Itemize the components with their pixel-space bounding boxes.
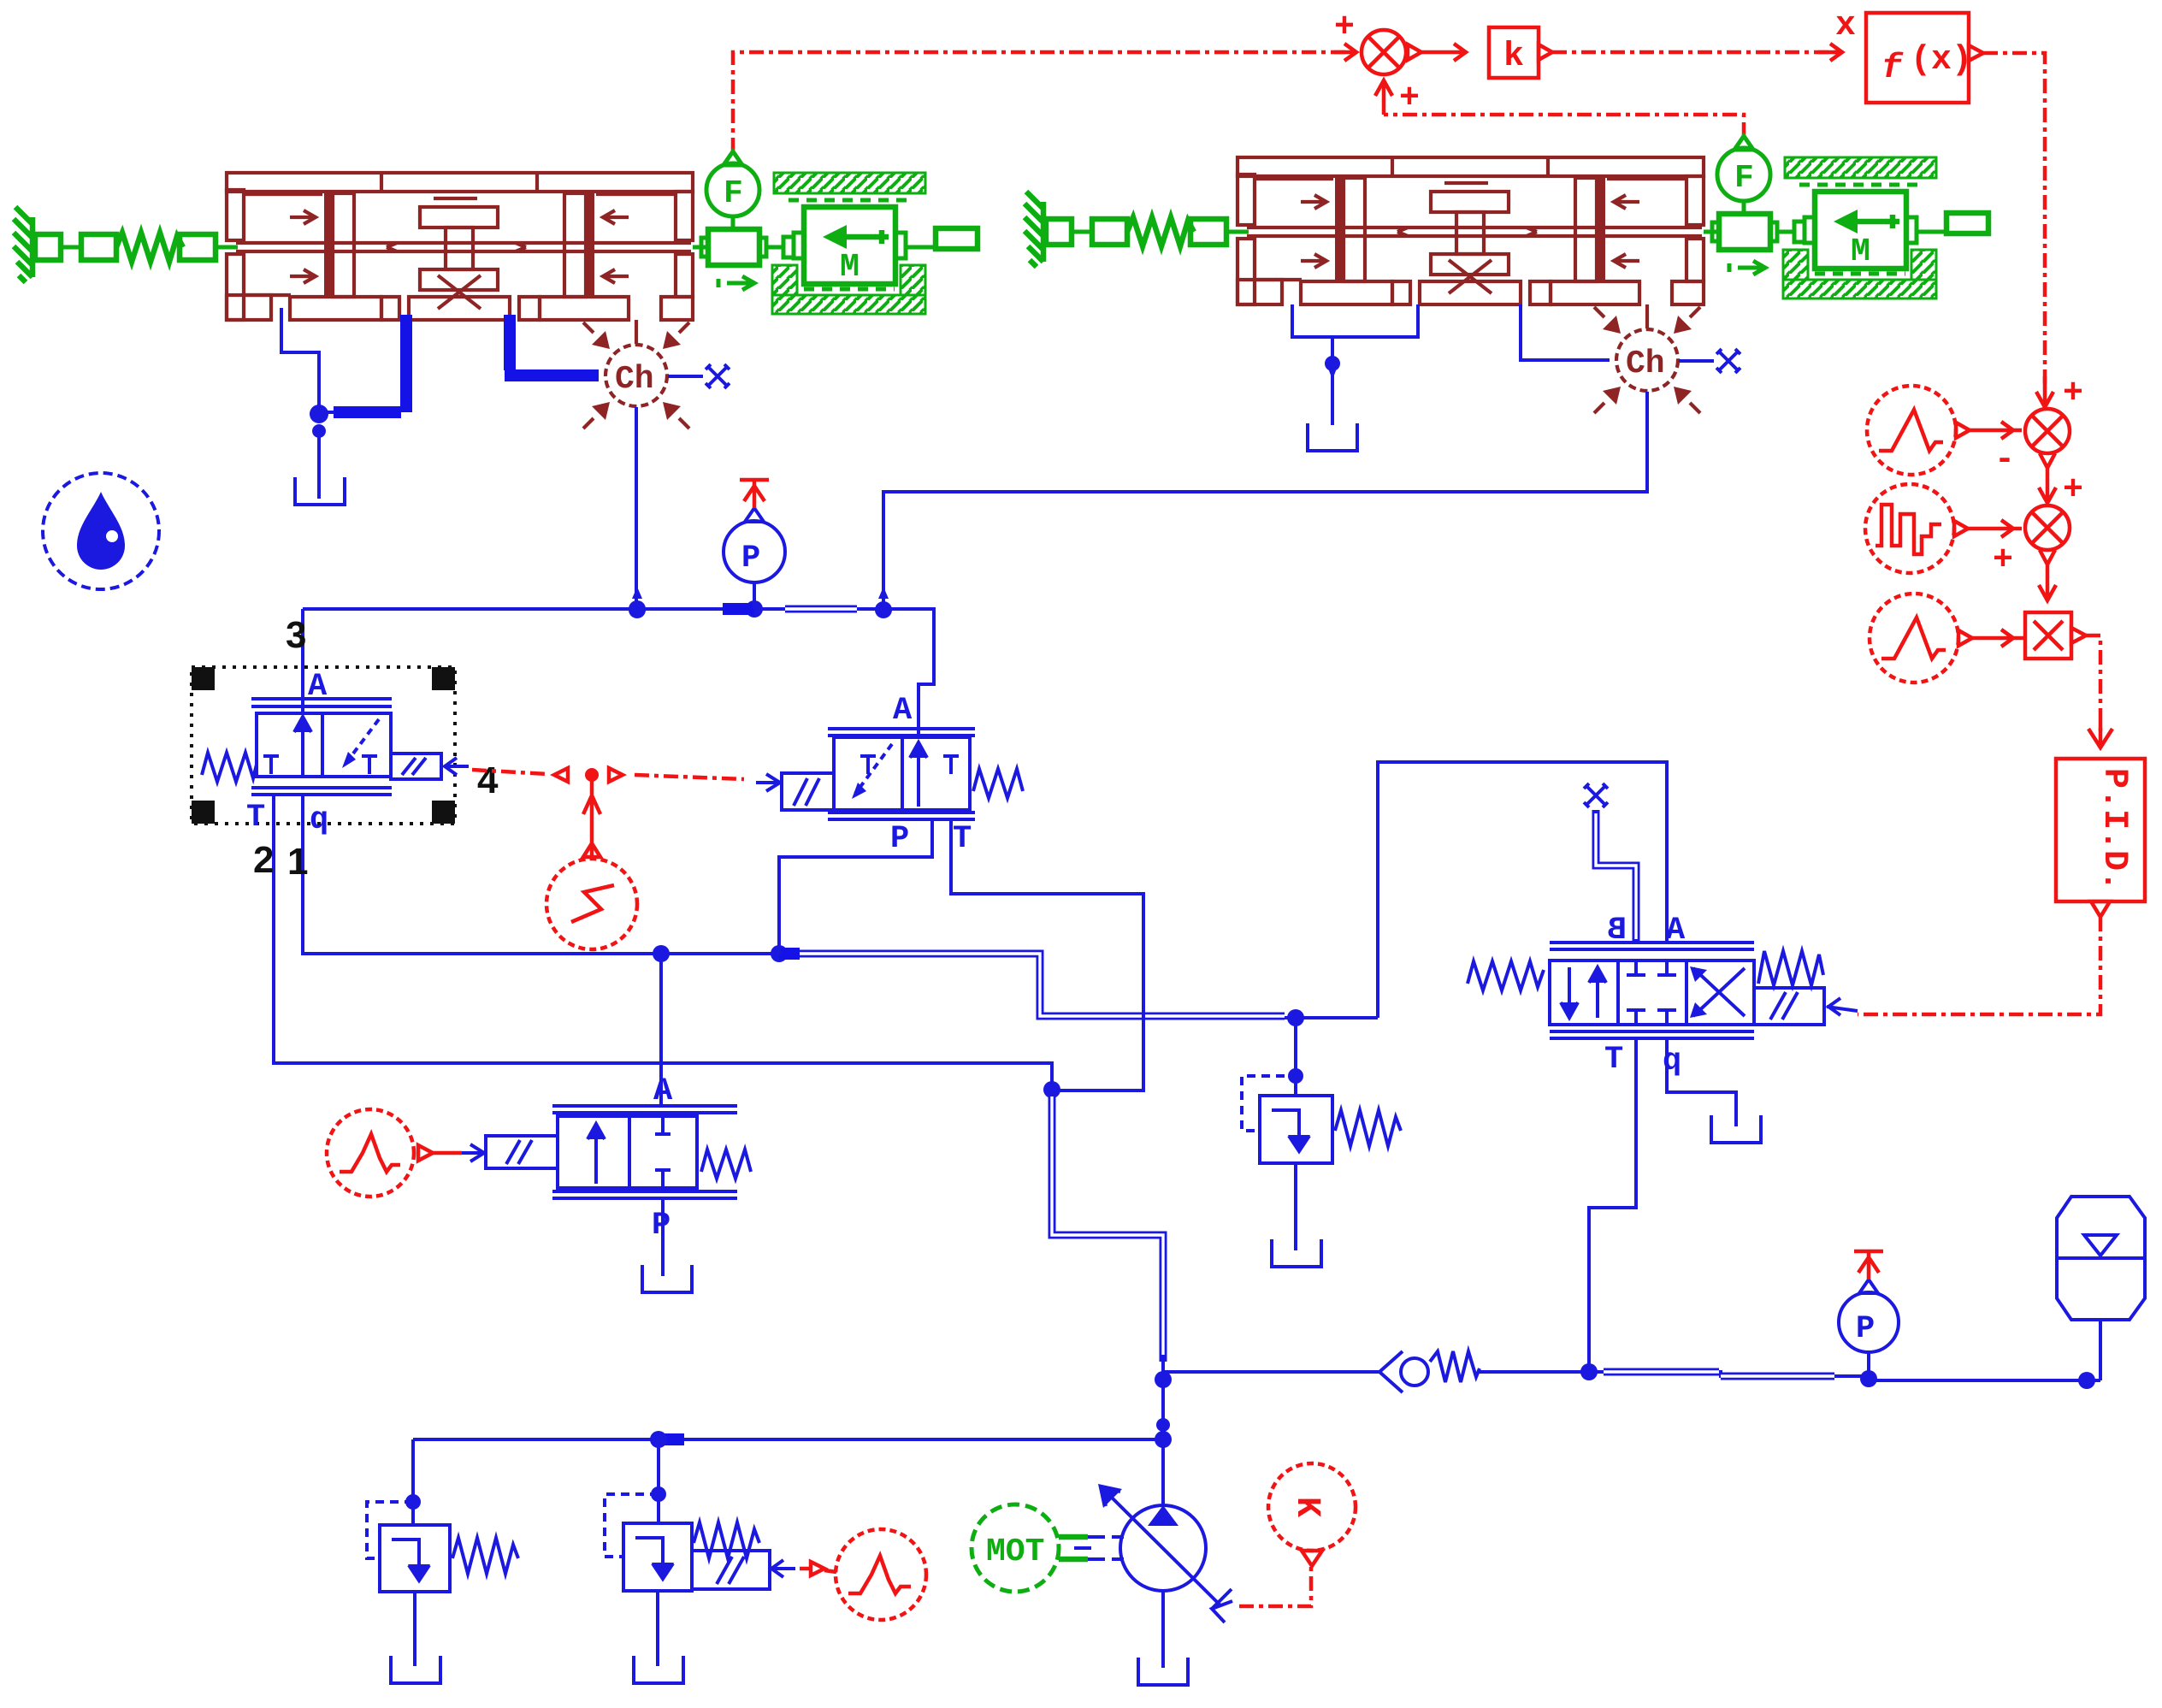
chamber Ch stem — [635, 320, 638, 344]
wire: S1 to k — [1421, 44, 1466, 61]
svg-text:MOT: MOT — [986, 1534, 1044, 1570]
wire: SV1 tank drop — [317, 432, 321, 499]
servo cylinder assembly SV1 (maroon) with load — [14, 151, 978, 428]
red bleed arrow above P2 — [1854, 1251, 1883, 1280]
node: summer1 bottom input arrow — [1375, 80, 1392, 115]
wire: accumulator stem — [2099, 1320, 2102, 1380]
wire: SV1 thick drain right to Ch — [505, 315, 599, 375]
PID controller block — [2056, 759, 2145, 901]
tank: PV3 tank — [642, 1265, 692, 1292]
svg-text:P: P — [890, 821, 909, 857]
red junction arrows — [554, 768, 568, 782]
electric motor MOT — [972, 1504, 1088, 1592]
wire: mass to end stop — [906, 245, 936, 250]
signal source SRC1 (ramp) — [1867, 386, 1956, 475]
pressure sensor P1 — [724, 508, 785, 582]
wire: S2 to S3 — [2039, 468, 2056, 503]
signal source SRC2 (steps) — [1865, 484, 1954, 573]
node junction dot — [1287, 1009, 1304, 1026]
node junction dot — [1155, 1371, 1172, 1388]
wire: shaft blue part — [1074, 1537, 1124, 1559]
orifice double segment on bus — [1604, 1372, 1834, 1376]
X marker vent — [706, 364, 730, 388]
wire: RV1 to tank — [413, 1592, 416, 1666]
wire: SV1 drain thin to tank — [281, 308, 319, 409]
tank: SV1 drain tank — [295, 477, 345, 505]
valve housing left wall — [227, 190, 244, 240]
wire: RV2 to tank — [656, 1591, 659, 1666]
wire: red dash-dot M1 to PID — [2086, 635, 2100, 731]
wire: center valve T route to node — [951, 818, 1143, 1090]
wire: SV1 thick drain left — [334, 315, 406, 412]
relief valve RV1 — [367, 1502, 518, 1592]
wire: double line down to pump branch — [1052, 1090, 1163, 1362]
housing inner chamber lines — [245, 194, 674, 295]
svg-text:A: A — [893, 693, 913, 729]
svg-text:P.I.D.: P.I.D. — [2094, 768, 2133, 891]
svg-text:-: - — [1994, 441, 2015, 480]
spring (input) — [116, 233, 183, 262]
wire: center valve A riser — [917, 729, 920, 737]
ceiling ground hatch — [774, 173, 925, 193]
node junction dot — [651, 1486, 666, 1502]
servo cylinder assembly SV2 (maroon) with load — [1025, 136, 1988, 413]
wire: pump riser — [1161, 1362, 1165, 1505]
wire: double line bus to pilot relief node — [800, 954, 1285, 1016]
node junction dot — [1156, 1418, 1170, 1432]
selection frame around selected valve — [192, 667, 455, 824]
tank: 4-way valve P tank — [1711, 1115, 1761, 1143]
svg-text:K: K — [1287, 1497, 1326, 1517]
svg-text:T: T — [1604, 1042, 1623, 1078]
node: k output pointer — [1539, 44, 1552, 60]
wire: bottom-left valve A riser — [659, 954, 663, 1108]
svg-text:k: k — [1503, 38, 1524, 76]
valve housing top bar — [227, 173, 693, 192]
summer S3 — [2025, 505, 2070, 550]
node: S3 output pointer — [2040, 550, 2055, 564]
node junction dot — [405, 1494, 421, 1510]
signal source SRC4 (zigzag) — [546, 859, 637, 949]
wire: B port double line to X vent — [1596, 810, 1636, 943]
node junction dot — [653, 945, 670, 962]
red bleed arrow above P1 — [740, 480, 769, 508]
node junction dot — [1860, 1370, 1877, 1387]
node: S1 output pointer — [1408, 44, 1421, 60]
damper block — [35, 234, 61, 260]
spool center cap — [434, 197, 477, 200]
svg-text:4: 4 — [477, 759, 499, 801]
node: PID output pointer — [2091, 901, 2110, 917]
summer S2 — [2025, 409, 2070, 453]
svg-text:q: q — [1663, 1043, 1681, 1079]
wire: selected valve T line to node — [274, 795, 1052, 1090]
svg-text:F: F — [724, 175, 743, 212]
bottom-left pilot valve PV3 — [462, 1073, 751, 1244]
signal source SRC5 (peak) — [327, 1109, 414, 1197]
svg-text:(x): (x) — [1911, 41, 1972, 80]
node junction dot — [746, 600, 763, 618]
relief valve RV2 with solenoid — [605, 1494, 795, 1591]
node junction dot — [771, 945, 788, 962]
tank: RV3 tank — [1272, 1239, 1321, 1267]
wire: PV3 to tank — [661, 1198, 665, 1276]
wire: relief valve RV2 riser — [657, 1439, 660, 1523]
red dash-dot pilot link from input T-junction — [472, 770, 547, 774]
wire: 4-way valve A port long route — [1378, 762, 1667, 1018]
svg-text:+: + — [2063, 471, 2083, 510]
wire: center valve P route to bus — [779, 818, 932, 954]
spool center I-beam — [420, 207, 498, 228]
wire: P2 sensor stem — [1867, 1353, 1870, 1379]
wire: relief branch line y1683 — [413, 1438, 1163, 1441]
wire: P1 sensor stem — [753, 583, 756, 609]
node junction dot — [310, 405, 328, 423]
chamber sensor Ch — [583, 322, 689, 428]
wire: relief valve RV1 riser — [411, 1439, 415, 1525]
wire: SRC1 to S2 — [1970, 422, 2022, 439]
node junction dot — [1043, 1081, 1060, 1098]
svg-text:3: 3 — [286, 614, 306, 656]
valve housing right wall — [676, 192, 693, 240]
orifice on main pilot line — [785, 606, 857, 613]
multiplier summer S1 — [1362, 30, 1406, 74]
wire: SRC5 to solenoid — [433, 1151, 462, 1155]
wire: bottom main bus — [1163, 1372, 2100, 1380]
node junction dot — [1580, 1363, 1598, 1380]
wire: RV3 to tank — [1294, 1163, 1297, 1250]
wire: red dash-dot F2 feedback line — [1384, 115, 1744, 137]
svg-text:+: + — [1993, 541, 2013, 580]
node junction dot — [1288, 1068, 1303, 1084]
wire: Ch to X vent — [668, 375, 703, 378]
mass M block — [804, 207, 895, 284]
svg-text:+: + — [2063, 375, 2083, 413]
svg-text:+: + — [1334, 9, 1355, 47]
wire: SV2 third port to Ch2 — [1521, 304, 1610, 360]
wire: green rod into valve — [216, 245, 238, 250]
nozzle flapper X — [438, 275, 481, 309]
variable displacement pump PU1 — [1098, 1484, 1232, 1622]
flow arrows left — [290, 210, 316, 283]
multiplier block M1 — [2025, 612, 2071, 659]
piston left — [324, 193, 333, 297]
svg-text:M: M — [840, 249, 859, 286]
check valve CV1 — [1379, 1351, 1480, 1392]
wire: Ch1 down to main line — [635, 407, 638, 609]
wire: node to A-line corner — [1285, 1016, 1378, 1019]
svg-text:P: P — [741, 541, 760, 576]
svg-text:T: T — [246, 800, 265, 836]
ground wall left — [14, 207, 32, 282]
fluid drop icon — [43, 473, 159, 589]
svg-text:x: x — [1835, 7, 1856, 45]
wire: S3 to multiplier M1 — [2039, 564, 2056, 600]
svg-text:1: 1 — [287, 841, 308, 883]
velocity arrow green — [718, 276, 754, 290]
wire: 4-way valve P port to tank — [1667, 1038, 1736, 1126]
node: M1 output pointer — [2071, 628, 2086, 643]
signal source SRC3 (ramp) — [1870, 594, 1958, 683]
wire: main pilot line y712 — [303, 609, 934, 729]
floor ground hatch — [772, 295, 925, 314]
node junction dot — [2078, 1372, 2095, 1389]
node junction dot — [875, 587, 892, 618]
node junction dot — [629, 600, 646, 618]
center pilot valve PV2 — [756, 693, 1023, 857]
gain block k — [1489, 27, 1539, 78]
signal source SRC6 (peak) to RV2 — [800, 1562, 824, 1575]
wire: selected valve A riser — [301, 609, 304, 713]
wire: node down to pilot relief valve — [1294, 1018, 1297, 1096]
tank: RV1 tank — [391, 1656, 440, 1683]
wire: red dash-dot K to pump swash arrow — [1239, 1565, 1311, 1606]
mass block small — [81, 234, 116, 260]
signal source K gain — [1268, 1463, 1356, 1566]
node junction dot — [1325, 356, 1340, 380]
node: f(x) output pointer — [1969, 45, 1983, 61]
node junction dot — [629, 587, 646, 618]
wire: 4-way valve T drain to bus — [1589, 1038, 1636, 1372]
rod end block — [180, 234, 216, 260]
force sensor F body — [708, 229, 759, 265]
pressure sensor P2 — [1839, 1280, 1899, 1352]
force sensor F circle — [706, 163, 759, 216]
wire: SV2 drain lines to tank — [1292, 304, 1418, 425]
function block f(x) — [1866, 13, 1969, 103]
wire: red dash-dot F1 to summer top line — [733, 52, 1348, 152]
node: S2 output pointer — [2040, 453, 2055, 468]
wire: red dash-dot PID to 4-way valve solenoid — [1858, 917, 2100, 1014]
tank: RV2 tank — [634, 1656, 683, 1683]
svg-text:q: q — [310, 802, 328, 838]
wire: red dash-dot f(x) to right column — [1983, 53, 2045, 389]
accumulator ACC1 — [2057, 1197, 2145, 1320]
wire: red source riser — [583, 775, 600, 857]
tank: SV2 drain tank — [1308, 423, 1357, 451]
svg-text:T: T — [953, 821, 972, 857]
selected proportional valve PV1 — [202, 669, 469, 838]
wire: pump to tank — [1161, 1591, 1165, 1668]
wire: link F to mass — [766, 245, 783, 250]
piston right — [564, 193, 586, 297]
svg-text:+: + — [1399, 80, 1420, 118]
svg-text:f: f — [1881, 50, 1904, 88]
X marker vent above 4-way valve — [1584, 783, 1608, 807]
wire: selected valve P line down to bus y1115 — [303, 795, 779, 954]
spool rod — [236, 243, 691, 251]
tank: pump tank — [1138, 1658, 1188, 1685]
wire: Ch2 drain long route to main line — [883, 392, 1647, 603]
wire: green rod to force sensor — [693, 245, 708, 250]
wire: red dash-dot k to f(x) — [1552, 50, 1840, 55]
4-way proportional valve PV4 — [1468, 913, 1858, 1079]
node junction dot — [312, 424, 326, 441]
node junction dot — [650, 1431, 667, 1448]
pilot relief valve RV3 — [1242, 1076, 1401, 1163]
node junction dot — [1155, 1431, 1172, 1448]
svg-text:A: A — [308, 669, 328, 705]
svg-text:P: P — [1856, 1311, 1875, 1347]
wire: SRC3 to M1 — [1972, 629, 2023, 647]
node: arrow into S2 top — [2036, 376, 2053, 407]
svg-text:A: A — [653, 1073, 673, 1109]
bottom port blocks — [290, 297, 381, 320]
svg-text:A: A — [1666, 913, 1686, 949]
svg-text:2: 2 — [253, 839, 274, 881]
flow arrows right — [603, 210, 629, 283]
wire: green link — [61, 245, 81, 250]
wire: SRC2 to S3 — [1968, 520, 2022, 537]
node: summer1 left input arrow — [1334, 44, 1356, 61]
svg-text:B: B — [1608, 913, 1627, 949]
